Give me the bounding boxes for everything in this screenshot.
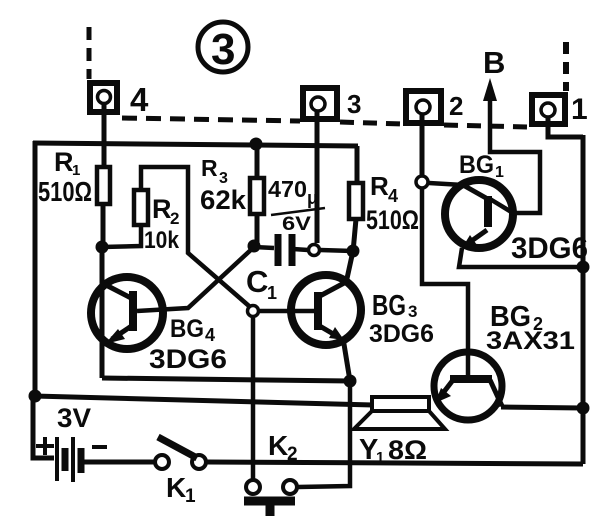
- wire BG1 base from node: [429, 183, 463, 185]
- wire terminal 2 down to node: [420, 114, 425, 175]
- transistor BG3: [291, 275, 434, 348]
- svg-text:K: K: [166, 472, 186, 503]
- svg-text:R: R: [370, 171, 389, 201]
- wire BG1 emitter to right border: [459, 248, 583, 267]
- junction node left rail: [29, 390, 42, 403]
- svg-text:BG: BG: [170, 315, 204, 343]
- svg-text:2: 2: [170, 209, 179, 228]
- terminal 2: [406, 91, 463, 123]
- wire K1 to right border: [207, 462, 583, 464]
- capacitor C1 electrolytic 470u 6V: [246, 176, 325, 303]
- resistor R4: [349, 171, 419, 235]
- resistor R3: [200, 155, 264, 215]
- dashed bus wire terminal4-terminal3: [122, 118, 300, 121]
- svg-text:3DG6: 3DG6: [511, 232, 588, 265]
- svg-text:510Ω: 510Ω: [38, 176, 92, 207]
- wire R3 bottom: [255, 214, 260, 247]
- transistor BG2: [434, 301, 575, 420]
- svg-text:BG: BG: [459, 151, 494, 179]
- wire BG3 base node down to K2: [251, 318, 256, 479]
- node BG3 base junction: [248, 306, 259, 317]
- terminal 1: [532, 93, 588, 126]
- svg-text:1: 1: [495, 164, 504, 181]
- wire R2 top bracket to BG3 base: [141, 167, 249, 306]
- antenna dashed lead-in top-right: [563, 42, 569, 91]
- junction node BG2 collector right border: [577, 402, 590, 415]
- wire terminal2 node down to BG2 base: [422, 189, 468, 379]
- resistor R2: [134, 190, 180, 254]
- svg-text:10k: 10k: [144, 227, 180, 254]
- switch K1: [155, 437, 206, 507]
- wire top border: [33, 143, 358, 146]
- svg-text:1: 1: [571, 93, 588, 126]
- dashed bus wire terminal3-terminal2: [340, 122, 403, 124]
- svg-text:62k: 62k: [200, 185, 247, 215]
- battery plus sign: [36, 444, 54, 448]
- svg-text:4: 4: [388, 186, 398, 206]
- svg-text:4: 4: [205, 325, 215, 345]
- figure number circled 3: [198, 22, 248, 74]
- junction node BG1 emitter right border: [577, 261, 590, 274]
- transistor BG1: [445, 151, 588, 265]
- pushbutton K2: [244, 430, 298, 516]
- wire BG3 collector to node: [346, 251, 353, 283]
- wire R4 bottom: [353, 219, 356, 252]
- battery minus sign: [92, 445, 107, 449]
- svg-text:3DG6: 3DG6: [149, 344, 227, 374]
- svg-text:3: 3: [347, 89, 361, 119]
- terminal 3: [303, 88, 361, 119]
- wire R3 top: [255, 144, 260, 178]
- wire bottom supply rail: [34, 396, 373, 405]
- svg-text:BG: BG: [372, 290, 406, 322]
- wire BG1 collector to B arrow: [490, 97, 540, 213]
- wire BG3 emitter down: [343, 338, 350, 381]
- junction node R4 bottom: [347, 245, 360, 258]
- svg-text:3DG6: 3DG6: [369, 320, 434, 348]
- antenna dashed lead-in top-left: [87, 27, 92, 79]
- wire R4 top hook: [355, 146, 360, 183]
- wire BG4 collector-emitter vertical: [100, 247, 105, 378]
- svg-text:R: R: [152, 194, 172, 224]
- wire emitter line BG4-BG3: [102, 378, 351, 381]
- wire BG2 collector to right border: [501, 407, 583, 408]
- node B label and arrow: [483, 45, 505, 152]
- transistor BG4: [91, 277, 227, 374]
- svg-text:2: 2: [287, 444, 298, 465]
- wire right border: [581, 135, 586, 464]
- svg-text:3AX31: 3AX31: [486, 327, 575, 355]
- svg-text:3: 3: [408, 302, 417, 321]
- junction node R3 bottom: [248, 240, 261, 253]
- wire terminal 4 to R1: [102, 103, 107, 167]
- wire battery to K1: [84, 460, 154, 465]
- svg-text:3V: 3V: [57, 403, 91, 433]
- wire R1 bottom: [101, 204, 106, 250]
- speaker Y1 8ohm: [354, 397, 445, 466]
- wire R2 bottom to node: [102, 225, 141, 247]
- wire left border: [33, 141, 38, 396]
- resistor R1: [38, 147, 110, 207]
- wire left border to battery: [33, 396, 54, 458]
- svg-text:R: R: [201, 155, 218, 181]
- svg-text:K: K: [268, 430, 288, 461]
- wire BG3 base: [260, 309, 318, 314]
- svg-text:R: R: [54, 147, 74, 177]
- svg-text:μ: μ: [307, 188, 318, 208]
- wire node to C1 left: [254, 247, 274, 248]
- svg-text:3: 3: [211, 25, 235, 74]
- node terminal 2 junction: [416, 176, 428, 188]
- terminal 4: [90, 81, 149, 118]
- svg-text:510Ω: 510Ω: [366, 205, 419, 235]
- wire terminal 3 down to node: [315, 111, 320, 243]
- wire emitter node down to K2 right: [298, 382, 350, 487]
- dashed bus wire terminal2-terminal1: [444, 125, 529, 127]
- battery 3V: [36, 403, 107, 482]
- svg-text:1: 1: [185, 486, 196, 507]
- svg-text:2: 2: [449, 91, 463, 121]
- wire C1 right to node: [293, 249, 308, 250]
- svg-text:B: B: [483, 45, 505, 80]
- junction node emitter line: [344, 375, 357, 388]
- junction node R3 top: [250, 138, 263, 151]
- node terminal 3 junction: [309, 245, 320, 256]
- wire node to R4 node: [320, 250, 353, 251]
- junction node R1 bottom: [96, 241, 109, 254]
- wire terminal 1 to right border: [548, 117, 583, 137]
- svg-text:470: 470: [268, 176, 307, 202]
- svg-text:6V: 6V: [282, 214, 311, 235]
- svg-text:C: C: [246, 264, 268, 299]
- wire cross-coupling R3 node to BG4 base: [137, 247, 254, 311]
- svg-text:4: 4: [130, 81, 149, 118]
- svg-text:1: 1: [267, 283, 277, 303]
